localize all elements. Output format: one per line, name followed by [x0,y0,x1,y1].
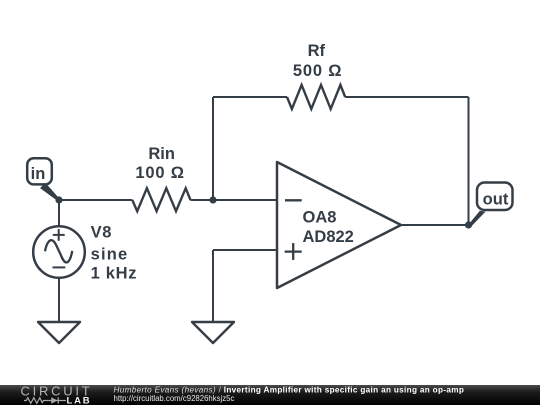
op-amp minus sign [285,199,302,201]
svg-text:LAB: LAB [67,396,92,405]
svg-text:100 Ω: 100 Ω [135,164,184,182]
svg-text:V8: V8 [91,224,112,242]
wire input node down to source [58,200,60,226]
label flag out: box [477,183,513,211]
svg-text:http://circuitlab.com/c92826hk: http://circuitlab.com/c92826hksjz5c [114,394,235,403]
logo resistor squiggle + diode [24,397,66,403]
ground (source) [38,322,80,343]
V8 plus sign [53,229,65,241]
svg-text:500 Ω: 500 Ω [293,62,342,80]
wire feedback left vertical [212,97,214,200]
op-amp U1 triangle [277,162,401,288]
footer bar [0,385,540,405]
svg-text:AD822: AD822 [303,228,354,246]
svg-text:in: in [31,165,46,183]
resistor Rin [132,188,190,211]
V8 sine squiggle [45,240,72,262]
op-amp plus sign [285,243,302,260]
wire feedback top right [345,96,468,98]
wire feedback top left [213,96,287,98]
ground (op-amp plus) [192,322,234,343]
wire Rin to op-amp inverting input [191,199,278,201]
label flag in: tail [40,183,59,202]
resistor Rf [287,85,345,109]
node out [465,221,472,228]
svg-text:Rf: Rf [308,42,326,60]
svg-text:1 kHz: 1 kHz [91,265,138,283]
svg-text:OA8: OA8 [303,209,337,227]
label flag in: box [27,158,52,184]
node in [55,196,62,203]
svg-text:out: out [483,191,509,209]
label flag out: tail [469,211,486,227]
wire input node to Rin [59,199,132,201]
wire op-amp plus input [213,249,277,251]
V8 minus sign [53,266,66,268]
wire source bottom to ground [58,278,60,322]
svg-text:sine: sine [91,245,129,263]
wire plus input down to ground [212,250,214,322]
wire feedback right vertical [468,97,470,225]
voltage source V8 circle [33,226,85,278]
node junction (feedback/Rin) [209,196,216,203]
svg-text:Rin: Rin [148,145,175,163]
wire op-amp output [401,224,469,226]
